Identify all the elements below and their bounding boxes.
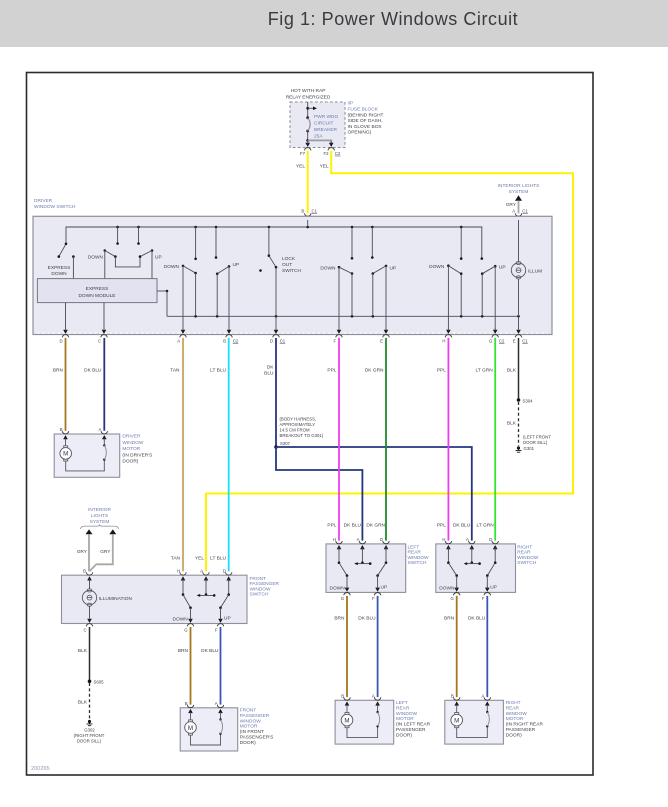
connector pin B C2 xyxy=(223,328,239,343)
wire DK GRN driver switch E to left rear switch D xyxy=(365,338,386,541)
svg-text:DOOR): DOOR) xyxy=(122,459,138,465)
switch driver DOWN blade xyxy=(88,249,117,278)
svg-text:DOWN: DOWN xyxy=(88,255,104,261)
connector pin F (passenger switch bottom) xyxy=(215,617,224,632)
switch left rear UP blade (rear switch) xyxy=(376,547,387,590)
circuit breaker PWR WDO 25A xyxy=(306,114,338,140)
svg-text:A: A xyxy=(357,537,360,542)
switch right rear UP blade (rear switch) xyxy=(486,547,497,590)
wire PPL driver switch H to right rear switch H xyxy=(437,338,449,541)
connector pin C (passenger switch bottom) xyxy=(83,617,92,632)
svg-text:RIGHT: RIGHT xyxy=(517,545,532,551)
svg-text:F2: F2 xyxy=(323,151,329,156)
svg-text:TAN: TAN xyxy=(170,367,180,373)
svg-text:MOTOR: MOTOR xyxy=(506,716,524,722)
svg-text:FRONT: FRONT xyxy=(240,708,257,714)
splice S605 xyxy=(88,680,104,685)
connector pin F (right rear switch bottom) xyxy=(482,586,491,601)
connector pin C xyxy=(98,328,107,343)
driver window motor box xyxy=(54,434,152,478)
switch driver UP blade xyxy=(139,249,162,278)
svg-text:WINDOW: WINDOW xyxy=(240,718,262,724)
connector pin A (passenger switch top) xyxy=(200,569,209,583)
svg-text:DOWN: DOWN xyxy=(173,617,189,623)
wire right rear motor loop xyxy=(457,707,490,738)
connector pin B (passenger motor) xyxy=(185,701,194,715)
right rear window switch box xyxy=(436,544,539,593)
svg-text:G302: G302 xyxy=(84,727,95,732)
svg-text:PASSENGER: PASSENGER xyxy=(506,727,536,733)
svg-text:PWR WDO: PWR WDO xyxy=(314,114,339,120)
label INTERIOR LIGHTS SYSTEM (left) xyxy=(81,507,119,534)
connector pin F2 C2 xyxy=(323,141,340,156)
svg-text:YEL: YEL xyxy=(320,163,329,169)
switch right rear DOWN blade xyxy=(429,227,462,331)
connector pin A (left rear switch top) xyxy=(357,537,366,551)
switch passenger common T bar xyxy=(197,579,216,597)
svg-text:(IN LEFT REAR: (IN LEFT REAR xyxy=(396,722,431,728)
title bar xyxy=(0,0,668,47)
svg-text:DK BLU: DK BLU xyxy=(468,616,486,622)
connector pin B (driver motor) xyxy=(60,427,69,441)
svg-text:APPROXIMATELY: APPROXIMATELY xyxy=(280,422,316,427)
svg-text:200265: 200265 xyxy=(31,766,50,772)
svg-text:GRY: GRY xyxy=(506,202,517,208)
connector pin H (passenger switch top) xyxy=(177,569,186,583)
svg-text:LOCK: LOCK xyxy=(282,256,296,262)
wire BLK dashed S304 to ground G301 xyxy=(507,402,519,446)
svg-text:REAR: REAR xyxy=(517,550,531,556)
wire BRN right rear switch G to motor B xyxy=(444,596,457,697)
svg-text:A: A xyxy=(512,208,515,213)
svg-text:REAR: REAR xyxy=(396,705,410,711)
splice S304 xyxy=(517,398,533,403)
svg-text:B: B xyxy=(223,338,226,343)
connector pin G (right rear switch bottom) xyxy=(450,586,460,601)
svg-text:PASSENGER: PASSENGER xyxy=(396,727,426,733)
wire LT BLU driver switch B C2 to passenger switch D xyxy=(210,338,229,571)
wire DK BLU driver switch D C1 to splice S307 xyxy=(264,338,276,447)
switch EXPRESS DOWN xyxy=(48,243,75,279)
svg-text:UP: UP xyxy=(390,266,397,272)
switch driver DOWN contact stubs xyxy=(116,227,140,245)
diagram outer border xyxy=(27,73,594,776)
svg-text:INTERIOR LIGHTS: INTERIOR LIGHTS xyxy=(498,183,540,189)
connector pin D (right rear switch top) xyxy=(489,537,498,551)
connector pin F7 xyxy=(300,141,311,156)
front passenger window switch box xyxy=(62,575,280,623)
svg-text:(BODY HARNESS,: (BODY HARNESS, xyxy=(280,417,317,422)
ground G301 xyxy=(516,434,552,452)
connector pin B C1 (driver switch top) xyxy=(301,208,317,223)
wire driver motor loop xyxy=(66,441,107,471)
svg-text:RELAY ENERGIZED: RELAY ENERGIZED xyxy=(286,94,331,100)
svg-text:MOTOR: MOTOR xyxy=(240,724,258,730)
switch left rear DOWN blade (rear switch) xyxy=(330,547,349,591)
connector pin D C1 xyxy=(270,328,286,343)
svg-text:YEL: YEL xyxy=(195,556,204,562)
label DK BLU above right rear switch A xyxy=(453,523,471,529)
connector pin F xyxy=(333,328,342,343)
left rear window switch box xyxy=(326,544,429,593)
svg-text:DRIVER: DRIVER xyxy=(34,198,53,204)
svg-text:DK BLU: DK BLU xyxy=(358,616,376,622)
wire BRN driver switch D to driver motor B xyxy=(53,338,66,431)
svg-text:14.5 CM FROM: 14.5 CM FROM xyxy=(280,428,311,433)
svg-text:BLK: BLK xyxy=(78,648,88,654)
fuse block dashed box xyxy=(290,102,345,148)
svg-text:H: H xyxy=(333,537,336,542)
wire passenger motor loop xyxy=(191,714,223,745)
connector pin D (driver switch bottom) xyxy=(59,328,68,343)
switch lock out xyxy=(259,227,301,331)
svg-text:A: A xyxy=(200,569,203,574)
switch left rear UP blade xyxy=(371,227,396,331)
svg-text:C: C xyxy=(83,627,86,632)
wire U link between driver blade ends xyxy=(115,257,140,267)
svg-text:LT GRN: LT GRN xyxy=(476,367,494,373)
express down module xyxy=(37,279,157,303)
wire hot feed inside fuse block xyxy=(306,102,317,118)
svg-text:(IN RIGHT REAR: (IN RIGHT REAR xyxy=(506,722,544,728)
svg-text:HOT WITH RAP: HOT WITH RAP xyxy=(291,88,326,94)
motor M left rear xyxy=(341,707,353,728)
svg-text:(IN DRIVER'S: (IN DRIVER'S xyxy=(122,452,152,458)
svg-text:H: H xyxy=(442,338,445,343)
svg-text:MOTOR: MOTOR xyxy=(396,716,414,722)
svg-text:(RIGHT FRONT: (RIGHT FRONT xyxy=(74,733,105,738)
svg-text:A: A xyxy=(215,701,218,706)
svg-text:PPL: PPL xyxy=(437,523,446,529)
svg-text:DRIVER: DRIVER xyxy=(122,434,141,440)
svg-text:C1: C1 xyxy=(522,208,528,213)
svg-text:WINDOW: WINDOW xyxy=(122,440,144,446)
svg-text:BRN: BRN xyxy=(53,367,64,373)
wire TAN driver switch A to passenger switch H xyxy=(170,338,183,571)
switch left rear DOWN blade xyxy=(320,227,353,331)
svg-text:DOWN MODULE: DOWN MODULE xyxy=(78,293,115,299)
connector pin A (left rear motor) xyxy=(372,694,381,708)
svg-text:UP: UP xyxy=(155,255,162,261)
wire left rear motor loop xyxy=(347,707,380,738)
svg-text:A: A xyxy=(466,537,469,542)
wire module output to pin C xyxy=(103,303,105,331)
svg-text:BRN: BRN xyxy=(334,616,345,622)
svg-text:B: B xyxy=(60,427,63,432)
svg-text:B: B xyxy=(83,569,86,574)
switch passenger UP blade xyxy=(219,579,230,622)
svg-text:(LEFT FRONT: (LEFT FRONT xyxy=(523,434,551,439)
svg-text:BLK: BLK xyxy=(507,421,517,427)
connector pin G C2 xyxy=(489,328,505,343)
svg-text:PPL: PPL xyxy=(437,367,446,373)
svg-text:DOWN: DOWN xyxy=(439,585,455,591)
label INTERIOR LIGHTS SYSTEM (right) xyxy=(498,183,540,201)
svg-text:BREAKER: BREAKER xyxy=(314,127,337,133)
svg-text:DOWN: DOWN xyxy=(320,266,336,272)
svg-text:EXPRESS: EXPRESS xyxy=(86,286,109,292)
svg-text:DOOR): DOOR) xyxy=(396,732,412,738)
svg-text:D: D xyxy=(223,569,226,574)
svg-text:BLK: BLK xyxy=(78,700,88,706)
svg-text:IN GLOVE BOX: IN GLOVE BOX xyxy=(348,124,383,130)
svg-text:TAN: TAN xyxy=(171,556,181,562)
svg-text:C1: C1 xyxy=(312,208,318,213)
svg-text:LEFT: LEFT xyxy=(396,700,408,706)
connector pin A (right rear motor) xyxy=(482,694,491,708)
svg-text:DK BLU: DK BLU xyxy=(84,367,102,373)
connector pin D (left rear switch top) xyxy=(380,537,389,551)
svg-text:RIGHT: RIGHT xyxy=(506,700,521,706)
svg-text:A: A xyxy=(372,694,375,699)
svg-text:DOWN: DOWN xyxy=(429,264,445,270)
svg-text:PASSENGER: PASSENGER xyxy=(250,581,280,587)
svg-text:G301: G301 xyxy=(524,446,535,451)
svg-text:UP: UP xyxy=(490,584,497,590)
motor M right rear xyxy=(451,707,463,728)
svg-text:SWITCH: SWITCH xyxy=(517,560,536,566)
svg-text:BREAKOUT TO G301): BREAKOUT TO G301) xyxy=(280,433,324,438)
connector pin H (right rear switch top) xyxy=(442,537,451,551)
wire module output to pin D xyxy=(65,303,67,331)
svg-text:B: B xyxy=(341,694,344,699)
svg-text:DOWN: DOWN xyxy=(164,264,180,270)
wire module right tap to lower bus xyxy=(157,290,168,317)
svg-text:LT BLU: LT BLU xyxy=(210,556,226,562)
wire DK BLU passenger switch F to passenger motor A xyxy=(201,627,220,705)
svg-text:PPL: PPL xyxy=(327,367,336,373)
left rear window motor box xyxy=(335,700,430,744)
switch right rear common T bar xyxy=(464,547,481,565)
svg-text:25A: 25A xyxy=(314,134,323,140)
motor M passenger xyxy=(185,714,197,735)
svg-text:B: B xyxy=(185,701,188,706)
svg-text:E: E xyxy=(380,338,383,343)
svg-text:PASSENGER'S: PASSENGER'S xyxy=(240,735,274,741)
connector pin D (passenger switch top) xyxy=(223,569,232,583)
svg-text:A: A xyxy=(99,427,102,432)
svg-text:YEL: YEL xyxy=(296,163,305,169)
label HOT WITH RAP RELAY ENERGIZED xyxy=(286,88,331,100)
svg-text:BRN: BRN xyxy=(444,616,455,622)
svg-text:SWITCH: SWITCH xyxy=(282,268,301,274)
svg-text:C2: C2 xyxy=(233,338,239,343)
svg-text:OPENING): OPENING) xyxy=(348,130,372,136)
svg-text:INTERIOR: INTERIOR xyxy=(88,507,111,513)
wire GRY left branch to passenger switch B xyxy=(77,534,89,571)
connector pin H (left rear switch top) xyxy=(333,537,342,551)
connector pin B (left rear motor) xyxy=(341,694,350,708)
svg-text:F: F xyxy=(482,596,485,601)
svg-text:D: D xyxy=(59,338,62,343)
svg-text:C1: C1 xyxy=(522,338,528,343)
svg-text:C2: C2 xyxy=(335,151,341,156)
wire BLK passenger switch C to splice S605 xyxy=(78,627,90,681)
footer part number 200265 xyxy=(31,766,50,772)
svg-text:F: F xyxy=(372,596,375,601)
wire GRY to interior lights xyxy=(506,201,519,214)
connector pin E xyxy=(380,328,389,343)
svg-text:I/P: I/P xyxy=(348,101,354,107)
svg-text:DOWN: DOWN xyxy=(330,585,346,591)
svg-text:S307: S307 xyxy=(280,441,291,446)
svg-text:DK BLU: DK BLU xyxy=(201,648,219,654)
wire YEL from F2 C2 long run to front passenger switch pin A xyxy=(195,151,573,572)
wire DK BLU driver switch C to driver motor A xyxy=(84,338,104,431)
svg-text:FRONT: FRONT xyxy=(250,576,267,582)
switch right rear UP blade xyxy=(481,257,506,330)
connector pin A (passenger motor) xyxy=(215,701,224,715)
connector pin E C1 xyxy=(513,328,529,343)
wire BLK driver switch E C1 to splice S304 xyxy=(507,338,519,400)
connector pin F (left rear switch bottom) xyxy=(372,586,381,601)
wire PPL driver switch F to left rear switch H xyxy=(327,338,339,541)
front passenger window motor box xyxy=(180,708,273,752)
switch left rear common T bar xyxy=(354,547,371,565)
label DK BLU above left rear switch A xyxy=(344,523,362,529)
ground G302 xyxy=(74,720,105,743)
svg-text:A: A xyxy=(482,694,485,699)
svg-text:CIRCUIT: CIRCUIT xyxy=(314,121,334,127)
svg-text:GRY: GRY xyxy=(100,549,111,555)
svg-text:B: B xyxy=(301,208,304,213)
svg-text:S304: S304 xyxy=(523,398,534,403)
lamp ILLUMINATION xyxy=(82,579,132,620)
wire DK BLU left rear switch F to motor A xyxy=(358,596,377,697)
svg-text:WINDOW: WINDOW xyxy=(506,711,528,717)
svg-text:Fig 1: Power Windows Circuit: Fig 1: Power Windows Circuit xyxy=(268,9,518,29)
svg-text:H: H xyxy=(177,569,180,574)
svg-text:UP: UP xyxy=(499,265,506,271)
svg-text:REAR: REAR xyxy=(408,550,422,556)
switch window A DOWN blade xyxy=(164,227,197,331)
wire DK BLU right rear switch F to motor A xyxy=(468,596,487,697)
svg-text:ILLUMINATION: ILLUMINATION xyxy=(99,596,133,602)
svg-text:DOOR SILL): DOOR SILL) xyxy=(523,440,548,445)
driver window switch box xyxy=(33,198,552,335)
svg-text:SWITCH: SWITCH xyxy=(408,560,427,566)
wire GRY right branch xyxy=(90,534,113,571)
svg-text:SIDE OF DASH,: SIDE OF DASH, xyxy=(348,118,383,124)
svg-text:S605: S605 xyxy=(94,680,105,685)
svg-text:WINDOW: WINDOW xyxy=(396,711,418,717)
svg-text:UP: UP xyxy=(224,616,231,622)
connector pin A C1 (driver switch top) xyxy=(512,208,528,223)
svg-text:A: A xyxy=(177,338,180,343)
svg-text:BLU: BLU xyxy=(264,371,274,377)
wire breaker output to pins F7 F2 xyxy=(306,131,331,144)
motor M driver xyxy=(60,441,72,462)
svg-text:C2: C2 xyxy=(499,338,505,343)
wire YEL from F7 to driver window switch pin B C1 xyxy=(296,151,308,214)
svg-text:DK GRN: DK GRN xyxy=(365,367,384,373)
svg-text:MOTOR: MOTOR xyxy=(122,446,140,452)
svg-text:DK: DK xyxy=(267,364,274,370)
connector pin B (right rear motor) xyxy=(451,694,460,708)
svg-text:B: B xyxy=(451,694,454,699)
switch right rear DOWN blade (rear switch) xyxy=(439,547,458,591)
svg-text:WINDOW SWITCH: WINDOW SWITCH xyxy=(34,204,76,210)
connector pin A (driver motor) xyxy=(99,427,108,441)
svg-text:C1: C1 xyxy=(280,338,286,343)
svg-text:D: D xyxy=(270,338,273,343)
svg-text:SYSTEM: SYSTEM xyxy=(509,189,529,195)
connector pin G (left rear switch bottom) xyxy=(341,586,351,601)
splice S307 xyxy=(274,441,290,449)
wire BLK dashed S605 to ground G302 xyxy=(78,683,90,720)
wire top bus inside driver switch xyxy=(66,220,482,259)
svg-text:OUT: OUT xyxy=(282,262,292,268)
svg-text:WINDOW: WINDOW xyxy=(250,586,272,592)
svg-text:D: D xyxy=(489,537,492,542)
wire DK BLU S307 branch to right rear switch A xyxy=(276,447,472,541)
svg-text:EXPRESS: EXPRESS xyxy=(48,265,71,271)
svg-text:WINDOW: WINDOW xyxy=(517,555,539,561)
svg-text:(IN FRONT: (IN FRONT xyxy=(240,729,264,735)
svg-text:H: H xyxy=(442,537,445,542)
label I/P FUSE BLOCK callout xyxy=(348,101,384,136)
svg-text:E: E xyxy=(513,338,516,343)
svg-text:PASSENGER: PASSENGER xyxy=(240,713,270,719)
svg-text:DK BLU: DK BLU xyxy=(453,523,471,529)
svg-text:SYSTEM: SYSTEM xyxy=(90,519,110,525)
connector pin B (passenger switch top) xyxy=(83,569,93,583)
svg-text:DK GRN: DK GRN xyxy=(366,523,385,529)
svg-text:LT GRN: LT GRN xyxy=(477,523,495,529)
connector pin G (passenger switch bottom) xyxy=(184,617,194,632)
svg-text:DOWN: DOWN xyxy=(51,271,67,277)
svg-text:D: D xyxy=(380,537,383,542)
svg-text:LIGHTS: LIGHTS xyxy=(91,513,108,519)
svg-text:ILLUM: ILLUM xyxy=(528,269,542,275)
svg-text:BRN: BRN xyxy=(178,648,189,654)
svg-text:SWITCH: SWITCH xyxy=(250,592,269,598)
svg-text:FUSE BLOCK: FUSE BLOCK xyxy=(348,107,379,113)
svg-text:REAR: REAR xyxy=(506,705,520,711)
svg-text:DK BLU: DK BLU xyxy=(344,523,362,529)
connector pin A xyxy=(177,328,186,343)
svg-text:UP: UP xyxy=(381,584,388,590)
svg-text:LEFT: LEFT xyxy=(408,545,420,551)
svg-text:PPL: PPL xyxy=(327,523,336,529)
svg-text:DOOR): DOOR) xyxy=(506,732,522,738)
svg-text:DOOR): DOOR) xyxy=(240,740,256,746)
wire BRN left rear switch G to motor B xyxy=(334,596,347,697)
svg-text:F: F xyxy=(215,627,218,632)
wire DK BLU S307 branch to left rear switch A xyxy=(276,447,362,541)
switch window A UP blade xyxy=(215,227,239,331)
lamp ILLUM in driver switch xyxy=(511,220,542,331)
svg-text:F: F xyxy=(333,338,336,343)
wire BRN passenger switch G to passenger motor B xyxy=(178,627,191,705)
svg-text:(BEHIND RIGHT: (BEHIND RIGHT xyxy=(348,112,384,118)
switch passenger DOWN blade xyxy=(173,579,192,623)
svg-text:C: C xyxy=(98,338,101,343)
wire lower bus inside driver switch xyxy=(167,315,520,318)
svg-text:UP: UP xyxy=(233,262,240,268)
wire LT GRN driver switch G C2 to right rear switch D xyxy=(476,338,496,541)
svg-text:WINDOW: WINDOW xyxy=(408,555,430,561)
svg-text:F7: F7 xyxy=(300,151,306,156)
label body harness callout xyxy=(280,417,324,439)
svg-text:BLK: BLK xyxy=(507,367,517,373)
connector pin H xyxy=(442,328,451,343)
connector pin A (right rear switch top) xyxy=(466,537,475,551)
svg-text:GRY: GRY xyxy=(77,549,88,555)
right rear window motor box xyxy=(445,700,544,744)
svg-text:DOOR SILL): DOOR SILL) xyxy=(77,738,102,743)
svg-text:LT BLU: LT BLU xyxy=(210,367,226,373)
